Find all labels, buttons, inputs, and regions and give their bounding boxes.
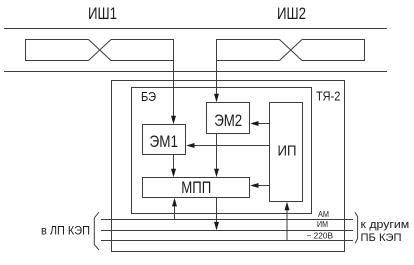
- label АМ: [318, 209, 329, 219]
- label ТЯ-2: [316, 90, 341, 104]
- node ИШ2 label: [277, 4, 306, 23]
- wire АМ bus up to МПП (arrow up): [174, 206, 176, 220]
- svg-text:ИМ: ИМ: [317, 219, 328, 229]
- wire ~220В bus up to ИП (arrow up): [286, 209, 288, 241]
- svg-text:ПБ КЭП: ПБ КЭП: [361, 232, 402, 244]
- box МПП: [143, 178, 250, 198]
- brace right (к другим ПБ КЭП): [355, 212, 358, 243]
- box ЭМ1: [143, 125, 186, 155]
- wire ИП to ЭМ2 (arrow left): [258, 123, 270, 125]
- wire ЭМ2 down to МПП (arrow down): [216, 134, 218, 170]
- svg-text:в ЛП КЭП: в ЛП КЭП: [41, 223, 90, 237]
- brace left (в ЛП КЭП): [94, 212, 99, 250]
- wire ИП to МПП (arrow left): [258, 185, 270, 187]
- node ИШ1 label: [88, 4, 117, 23]
- svg-text:ИШ2: ИШ2: [277, 4, 306, 23]
- svg-text:к другим: к другим: [361, 219, 410, 231]
- label к другим: [361, 219, 410, 231]
- wire МПП down to ИМ bus (arrow down): [216, 198, 218, 224]
- box БЭ (inner block): [132, 88, 312, 214]
- svg-text:ИШ1: ИШ1: [88, 4, 117, 23]
- wire rail 2 (bottom rail line): [4, 71, 387, 73]
- label ИМ: [317, 219, 328, 229]
- label ~220В: [307, 230, 334, 240]
- box ЭМ2: [207, 103, 250, 134]
- svg-text:ТЯ-2: ТЯ-2: [316, 90, 341, 104]
- wire from IJ1 right edge down to ЭМ1 (arrow down): [173, 61, 175, 117]
- label БЭ: [141, 90, 156, 104]
- box ИП: [270, 103, 303, 202]
- label ПБ КЭП: [361, 232, 402, 244]
- label в ЛП КЭП: [41, 223, 90, 237]
- svg-text:БЭ: БЭ: [141, 90, 156, 104]
- box ТЯ-2 (outer unit): [112, 81, 345, 252]
- bus ИМ: [101, 230, 353, 232]
- wire ИП to ЭМ1 (arrow left): [194, 145, 270, 147]
- insulated joint IJ1 (bowtie for ИШ1): [26, 40, 174, 61]
- wire ЭМ1 down to МПП (arrow down): [173, 155, 175, 170]
- svg-text:~ 220В: ~ 220В: [307, 230, 334, 240]
- wire from IJ2 left edge down to ЭМ2 (arrow down): [216, 61, 218, 95]
- svg-text:МПП: МПП: [181, 178, 211, 197]
- svg-text:ЭМ2: ЭМ2: [214, 111, 242, 130]
- svg-text:ИП: ИП: [278, 144, 297, 160]
- svg-text:АМ: АМ: [318, 209, 329, 219]
- insulated joint IJ2 (bowtie for ИШ2): [217, 40, 365, 61]
- svg-text:ЭМ1: ЭМ1: [150, 132, 179, 151]
- bus ~220В: [101, 240, 353, 242]
- wire rail 1 (top rail line): [4, 28, 387, 30]
- bus АМ: [101, 219, 353, 221]
